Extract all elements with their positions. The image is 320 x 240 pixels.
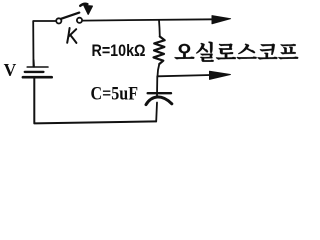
oscilloscope label char 실 — [196, 42, 214, 62]
label K (switch) — [67, 28, 76, 43]
oscilloscope label char 코 — [258, 44, 278, 60]
wire bottom rail — [34, 78, 156, 123]
capacitor C1 bottom curved plate — [146, 97, 172, 105]
switch K right terminal — [77, 18, 82, 23]
switch closing-direction arrow — [80, 4, 87, 6]
capacitor C1 top plate — [148, 92, 171, 94]
svg-text:C=5uF: C=5uF — [91, 85, 139, 105]
oscilloscope label char 오 — [174, 44, 194, 59]
oscilloscope arrow 2 head — [210, 71, 231, 79]
battery V plate 2 (middle short) — [25, 71, 44, 73]
oscilloscope arrow 2 (from node B) — [158, 75, 212, 76]
wire top-left corner: left rail up + top run to switch — [33, 21, 56, 67]
svg-text:R=10kΩ: R=10kΩ — [92, 41, 146, 60]
battery V plate 1 (top) — [27, 66, 48, 68]
oscilloscope label char 스 — [237, 44, 257, 60]
wire node B down to capacitor — [156, 76, 158, 96]
wire battery top stub — [33, 60, 35, 67]
wire junction (node A) down to resistor — [158, 20, 161, 36]
wire from switch to oscilloscope arrow 1 — [82, 19, 214, 20]
switch K blade — [61, 13, 79, 19]
battery V plate 3 (bottom long) — [23, 76, 52, 79]
switch K left terminal — [56, 18, 61, 23]
svg-text:V: V — [4, 60, 17, 80]
wire capacitor to bottom rail — [155, 103, 158, 122]
wire resistor bottom to node B — [158, 64, 160, 76]
oscilloscope label char 로 — [216, 44, 236, 60]
resistor R1 zigzag — [154, 37, 165, 65]
oscilloscope label char 프 — [278, 44, 298, 59]
oscilloscope arrow 1 head — [212, 16, 231, 24]
